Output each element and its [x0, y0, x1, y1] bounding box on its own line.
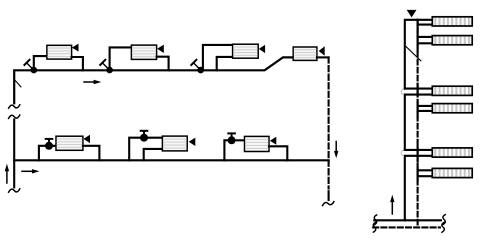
air vent radiator 5 [83, 135, 90, 143]
bottom row main [14, 159, 328, 161]
stub radiator r4 top [418, 105, 433, 107]
break symbol lower riser start [9, 115, 20, 118]
bypass pipe radiator 6 [144, 149, 163, 160]
return pipe radiator 5 [83, 146, 100, 161]
stub radiator r5 bottom with riser [405, 156, 433, 221]
air vent radiator 1 [72, 44, 79, 52]
radiator 4 [293, 47, 317, 60]
junction dot node 2 [106, 67, 113, 74]
radiator 7 [245, 136, 270, 151]
tap valve radiator 7 [228, 133, 236, 144]
break symbol return main left [373, 222, 376, 232]
radiator r2 [432, 36, 472, 45]
stub radiator r2 bottom [418, 42, 433, 44]
crossover arc floor 2 [401, 89, 402, 94]
return main right diagram dashed [373, 226, 440, 228]
supply main right diagram [374, 219, 441, 221]
supply pipe radiator 2 [110, 47, 132, 69]
radiator r6 [432, 168, 472, 177]
lower-left riser [13, 119, 15, 187]
stub radiator r6 bottom [418, 175, 433, 177]
flow arrow up right riser [390, 195, 394, 214]
right riser top corner and stub [405, 20, 433, 89]
secondary riser dashed [417, 20, 419, 228]
stub radiator r3 top [405, 88, 433, 90]
junction dot node 3 [197, 67, 204, 74]
stub radiator r6 top [418, 169, 433, 171]
supply pipe radiator 1 [34, 56, 47, 69]
break symbol supply main left [374, 215, 377, 225]
flow arrow top row [84, 80, 101, 84]
return riser dashed [328, 57, 330, 188]
tap valve radiator 6 [140, 131, 148, 142]
air vent radiator 7 [270, 137, 276, 145]
slope tick on top-left riser [14, 80, 21, 87]
valve on riser node 3 [191, 60, 199, 69]
stub radiator r3 bottom with riser [405, 95, 433, 150]
radiator r5 [432, 148, 472, 157]
return riser solid tail [328, 191, 330, 200]
radiator 6 [162, 136, 187, 151]
crossover arc floor 3 [401, 151, 402, 156]
stub radiator r4 bottom [418, 110, 433, 112]
slope tick on right riser [405, 45, 421, 61]
flow arrow up lower riser [5, 164, 9, 183]
air vent radiator 6 [189, 138, 196, 146]
air vent radiator 3 [259, 45, 265, 53]
secondary riser solid floor 1 [417, 20, 419, 52]
radiator 1 [47, 45, 72, 59]
radiator r3 [432, 86, 472, 95]
break symbol supply main right [443, 215, 446, 225]
tap valve radiator 5 [45, 139, 53, 150]
junction dot node 1 [31, 67, 38, 74]
secondary riser solid floor 3b [417, 168, 419, 180]
break symbol top riser end [9, 105, 20, 108]
secondary riser solid floor 2a [417, 84, 419, 96]
stub radiator r5 top [405, 149, 433, 151]
air vent radiator 2 [157, 45, 164, 53]
flow arrow bottom row [22, 169, 39, 173]
valve on riser node 2 [100, 60, 108, 69]
radiator 2 [131, 45, 156, 59]
break symbol return riser end [323, 202, 334, 206]
radiator 3 [233, 44, 259, 58]
valve on riser node 1 [24, 60, 32, 69]
bypass pipe radiator 3 [217, 57, 233, 70]
supply pipe radiator 5 [39, 146, 56, 161]
radiator r4 [432, 104, 472, 113]
air vent radiator 4 [319, 46, 325, 55]
supply pipe radiator 7 [224, 140, 244, 160]
break symbol return main right [442, 222, 445, 232]
secondary riser solid floor 2b [417, 102, 419, 118]
return pipe radiator 1 [72, 57, 83, 70]
radiator 5 [56, 136, 83, 150]
secondary riser solid floor 3a [417, 147, 419, 162]
break symbol lower riser end [9, 189, 20, 192]
radiator r1 [432, 17, 472, 26]
air vent on riser top [407, 10, 417, 18]
supply pipe radiator 3 [203, 45, 233, 70]
return pipe radiator 7 [269, 146, 287, 160]
flow arrow down return riser [334, 142, 338, 159]
stub radiator r1 bottom [418, 24, 433, 26]
supply main top row with riser and raised end [14, 57, 293, 103]
supply pipe radiator 6 [129, 138, 162, 161]
stub radiator r2 top [418, 36, 433, 38]
return pipe radiator 2 [157, 57, 169, 71]
return pipe radiator 4 [317, 56, 329, 58]
